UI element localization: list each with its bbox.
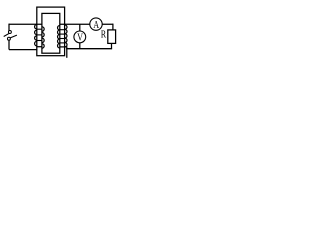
svg-text:V: V (77, 32, 83, 44)
wire: voltmeter branch upper (79, 24, 81, 31)
wire: left vertical lower (8, 40, 10, 50)
resistor R (box) (108, 30, 116, 44)
primary coil L1 outer-side turns (bulge left of outer-left leg) (35, 25, 37, 46)
switch S: blade lower (up-right from bottom terminal) (10, 35, 17, 38)
primary coil L1 crossing ticks over left leg (37, 29, 42, 40)
ammeter A (circle) (90, 18, 102, 30)
transformer core inner rectangle (42, 13, 60, 53)
secondary coil L2 outer-side turns (bulge right of outer-right leg) (65, 25, 67, 47)
switch S: top terminal (8, 31, 11, 34)
wire: secondary top (y=24.2) (60, 23, 113, 25)
transformer core outer rectangle (37, 7, 65, 56)
wire: top-right corner down to resistor (112, 24, 114, 31)
voltmeter V (circle) (74, 31, 86, 43)
svg-text:R: R (101, 29, 106, 40)
background (0, 0, 123, 65)
wire: secondary tail down at x=66.8 (66, 46, 68, 58)
secondary coil L2 crossing ticks over right leg (60, 30, 65, 43)
wire: primary coil bottom bar (y=46.7) (36, 46, 42, 48)
primary coil L1 (4 turns, bulge right on inner-left leg) (42, 27, 44, 48)
wire: voltmeter branch lower (79, 43, 81, 49)
wire: primary loop bottom (y=49.9) (9, 49, 37, 51)
wire: secondary coil bottom bar (y=46.9) (60, 46, 67, 48)
wire: resistor bottom lead (111, 43, 113, 48)
wire: left vertical upper (8, 24, 10, 31)
switch S: blade upper (down-left from top terminal) (4, 33, 10, 36)
wire: secondary bottom (y=48.7) (66, 48, 112, 50)
wire: primary loop top (y=24.2) (9, 23, 42, 25)
svg-text:A: A (93, 19, 99, 31)
secondary coil L2 (5 turns, bulge left on inner-right leg) (58, 26, 60, 49)
switch S: bottom terminal (7, 37, 10, 40)
